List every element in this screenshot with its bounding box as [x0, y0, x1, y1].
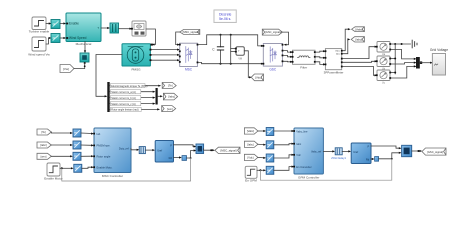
wire RT4 to controller — [82, 167, 92, 168]
wire MSC_signals tag to MSC gate — [176, 32, 180, 45]
gate merge block GPM — [402, 145, 412, 156]
from tag MSC_signals — [180, 30, 200, 35]
rate transition gpm 1 — [266, 128, 274, 136]
wire gate merge to GSC_signal goto — [412, 150, 420, 152]
ground — [412, 40, 417, 48]
voltage measurement branch — [230, 35, 232, 64]
converter GSC — [263, 44, 284, 72]
wire PWM P out to gate merge — [174, 145, 195, 147]
wire PWM gpm P to gate merge — [371, 146, 400, 148]
AC source Ua — [376, 42, 391, 57]
wire is_a row — [110, 91, 153, 93]
wire wm tag to RT — [51, 155, 71, 157]
from tag wm (controller) — [37, 153, 51, 159]
goto tag Vabc — [352, 27, 365, 32]
svg-text:GPM Controller: GPM Controller — [298, 176, 319, 180]
converter MSC — [179, 43, 199, 71]
wire common vertical — [394, 44, 396, 74]
svg-text:Vdc: Vdc — [296, 153, 301, 157]
mux Iabc — [156, 88, 158, 105]
goto tag Iabc grid — [351, 37, 364, 42]
mux grid voltage — [416, 57, 420, 69]
wire Mechanical bottom to goto wm — [84, 42, 86, 52]
wire delay gpm to gate merge lower — [379, 153, 400, 159]
svg-text:[GSC_signal]: [GSC_signal] — [427, 150, 443, 154]
unit delay tiny block gpm — [375, 157, 379, 162]
node delay feedback gpm — [391, 158, 393, 160]
node source A common — [394, 43, 396, 45]
step source En GPM — [245, 166, 257, 182]
svg-text:En GPM: En GPM — [245, 179, 257, 183]
node enable feedback junction gpm — [259, 169, 261, 171]
subsystem Mechanical — [66, 13, 101, 46]
PWM generator GPM — [351, 143, 371, 164]
wire gate merge to MSC_signal goto — [204, 149, 213, 151]
wire is_b row — [110, 97, 153, 99]
node bottom rail junction 1 — [220, 63, 222, 65]
wire RT2 to controller — [81, 144, 92, 146]
wire step2 to RT2 — [46, 38, 50, 44]
wire RT4 to GPM in4 — [274, 167, 292, 171]
svg-text:Rd: Rd — [366, 157, 370, 161]
wire Iabc to RT — [258, 143, 264, 145]
powergui block — [214, 10, 237, 23]
wire mux to Iabc tag — [158, 95, 161, 97]
signal label is_b — [110, 96, 140, 100]
wire PWM gpm Rd to delay — [371, 158, 372, 160]
step source Enable Motor — [44, 163, 62, 181]
svg-text:En Converter: En Converter — [296, 165, 311, 169]
ZOH delay block left — [139, 147, 145, 154]
node delay feedback — [190, 157, 192, 159]
wire Mechanical out to RT3 — [101, 27, 109, 29]
svg-text:[Vdc]: [Vdc] — [248, 156, 254, 160]
goto tag Iabc — [163, 93, 177, 100]
wires Filter to power meter — [316, 50, 324, 53]
svg-text:P: P — [367, 144, 369, 148]
ZOH Delay1 block — [331, 148, 346, 160]
scope Grid Voltage — [430, 48, 448, 75]
wire RT1 to Mechanical Enable — [60, 23, 65, 25]
from tag GSC_signals — [262, 29, 282, 35]
wire delay to gate merge lower — [187, 151, 195, 159]
filter block — [292, 50, 316, 69]
step source Turbine enable — [29, 17, 50, 34]
goto tag Vdc — [251, 74, 263, 81]
goto tag wm — [162, 106, 176, 112]
wire is_c row — [110, 103, 153, 105]
wire Te tag to RT — [51, 132, 71, 133]
capacitor C — [212, 35, 224, 64]
AC source Ub — [376, 56, 391, 71]
wire feedback GPM enable — [260, 159, 391, 180]
wire PMSG measurement out to bus selector — [96, 55, 122, 97]
svg-text:ZOH Delay1: ZOH Delay1 — [331, 156, 346, 160]
wire ZOH to PWM — [145, 149, 153, 151]
wire Vw tag to goto block — [74, 64, 85, 69]
from tag Vabc (gpm) — [244, 128, 258, 134]
wire feedback MSC enable — [62, 158, 191, 181]
wire RT2 to Mechanical Wind Speed — [60, 37, 65, 39]
signal label thetam — [110, 107, 141, 111]
wire RT3 to controller — [81, 155, 92, 157]
rate transition gpm 4 — [266, 166, 274, 174]
wire RT to GPM in1 — [274, 130, 292, 132]
svg-text:Iabc: Iabc — [296, 142, 302, 146]
goto block wm (teal small) — [80, 53, 89, 64]
unit delay tiny block left — [182, 156, 187, 161]
signal label is_c — [110, 102, 140, 106]
svg-text:Vabc_ref: Vabc_ref — [311, 150, 321, 154]
from tag Iabc (gpm) — [244, 141, 258, 147]
rate transition blue 2 — [73, 141, 81, 149]
wire source C lower to mux — [391, 66, 414, 78]
logger block (white scope) — [131, 21, 146, 36]
wire controller to ZOH — [131, 148, 138, 149]
wire sources common to ground — [391, 43, 410, 45]
wire MSC plus to DC rail top — [198, 35, 261, 46]
wires meter to grid sources — [343, 47, 376, 59]
node tap A — [401, 43, 403, 45]
svg-text:Uref: Uref — [353, 150, 358, 154]
wire source B lower to mux — [391, 63, 414, 64]
goto tag GSC_signal — [422, 148, 446, 155]
wire PWM Rd out to delay — [174, 157, 180, 159]
three-phase VI measurement block — [324, 49, 344, 75]
wire meter Iabc to tag — [343, 39, 348, 53]
bus selector bar — [107, 82, 109, 112]
wire Vabc to RT — [258, 130, 264, 132]
gate merge block MSC — [196, 144, 204, 154]
wire ZOH Delay1 to PWM gpm — [342, 150, 349, 152]
wire En GPM to RT4 — [257, 169, 264, 171]
from tag Vdc (gpm) — [244, 154, 258, 160]
wire mux to scope — [420, 62, 431, 64]
subsystem GPM Controller — [293, 128, 323, 180]
rate transition blue 1 — [73, 129, 81, 137]
wire source C upper to common — [391, 72, 395, 74]
wire RT3 to logger block — [119, 28, 131, 30]
wire meter Vabc to tag — [343, 29, 349, 51]
wire thetam row — [110, 108, 158, 110]
wire source B upper to common — [391, 58, 395, 60]
wire step1 to RT1 — [46, 23, 50, 25]
goto tag Te — [162, 83, 176, 89]
node enable feedback junction — [61, 167, 63, 169]
AC source Uc — [376, 70, 391, 85]
signal label Te — [110, 84, 147, 88]
rate transition gpm 3 — [266, 154, 274, 162]
wire Vdc to RT — [258, 156, 264, 158]
wire logger to PMSG top — [146, 29, 155, 45]
rate transition RT3 (striped) — [110, 23, 119, 33]
from tag Iabc (controller) — [37, 142, 51, 148]
rate transition RT1 — [51, 20, 60, 29]
svg-text:[Vabc]: [Vabc] — [247, 129, 254, 133]
wire RT to GPM in2 — [274, 144, 292, 145]
wire Te row — [110, 85, 159, 87]
wire VM to Vdc tag — [244, 51, 249, 78]
wire source A lower to mux — [391, 50, 414, 59]
PWM generator MSC — [155, 141, 173, 163]
rate transition blue 4 — [74, 164, 82, 172]
goto tag MSC_signal — [215, 147, 240, 153]
rate transition RT2 — [51, 34, 60, 43]
from tag Vw — [60, 65, 74, 73]
wire Iabc tag to RT — [51, 144, 71, 146]
node top rail junction 2 — [230, 34, 232, 36]
node top rail junction 1 — [220, 34, 222, 36]
subsystem MSC Controller — [93, 128, 131, 178]
node bottom rail junction 2 — [230, 63, 232, 65]
machine PMSG — [122, 44, 153, 72]
wire Enable Motor to RT4 — [60, 167, 72, 169]
from tag Te (controller) — [37, 129, 51, 135]
wire MSC minus to DC rail bottom — [198, 62, 261, 63]
wire RT1 to controller — [81, 132, 92, 135]
rate transition gpm 2 — [266, 141, 274, 149]
rate transition blue 3 — [73, 152, 81, 160]
wire RT to GPM in3 — [274, 155, 292, 158]
wire GPM to ZOH delay — [323, 150, 333, 152]
voltage measurement block VM — [235, 47, 244, 61]
signal label is_a — [110, 90, 140, 94]
step source Wind speed Vw — [28, 37, 50, 56]
wires PMSG phases to MSC — [152, 49, 179, 51]
wires GSC to Filter — [283, 51, 291, 53]
svg-text:[Iabc]: [Iabc] — [247, 143, 254, 147]
wire GSC_signals tag to GSC gate — [282, 32, 288, 45]
svg-text:Vabc_line: Vabc_line — [296, 129, 308, 133]
